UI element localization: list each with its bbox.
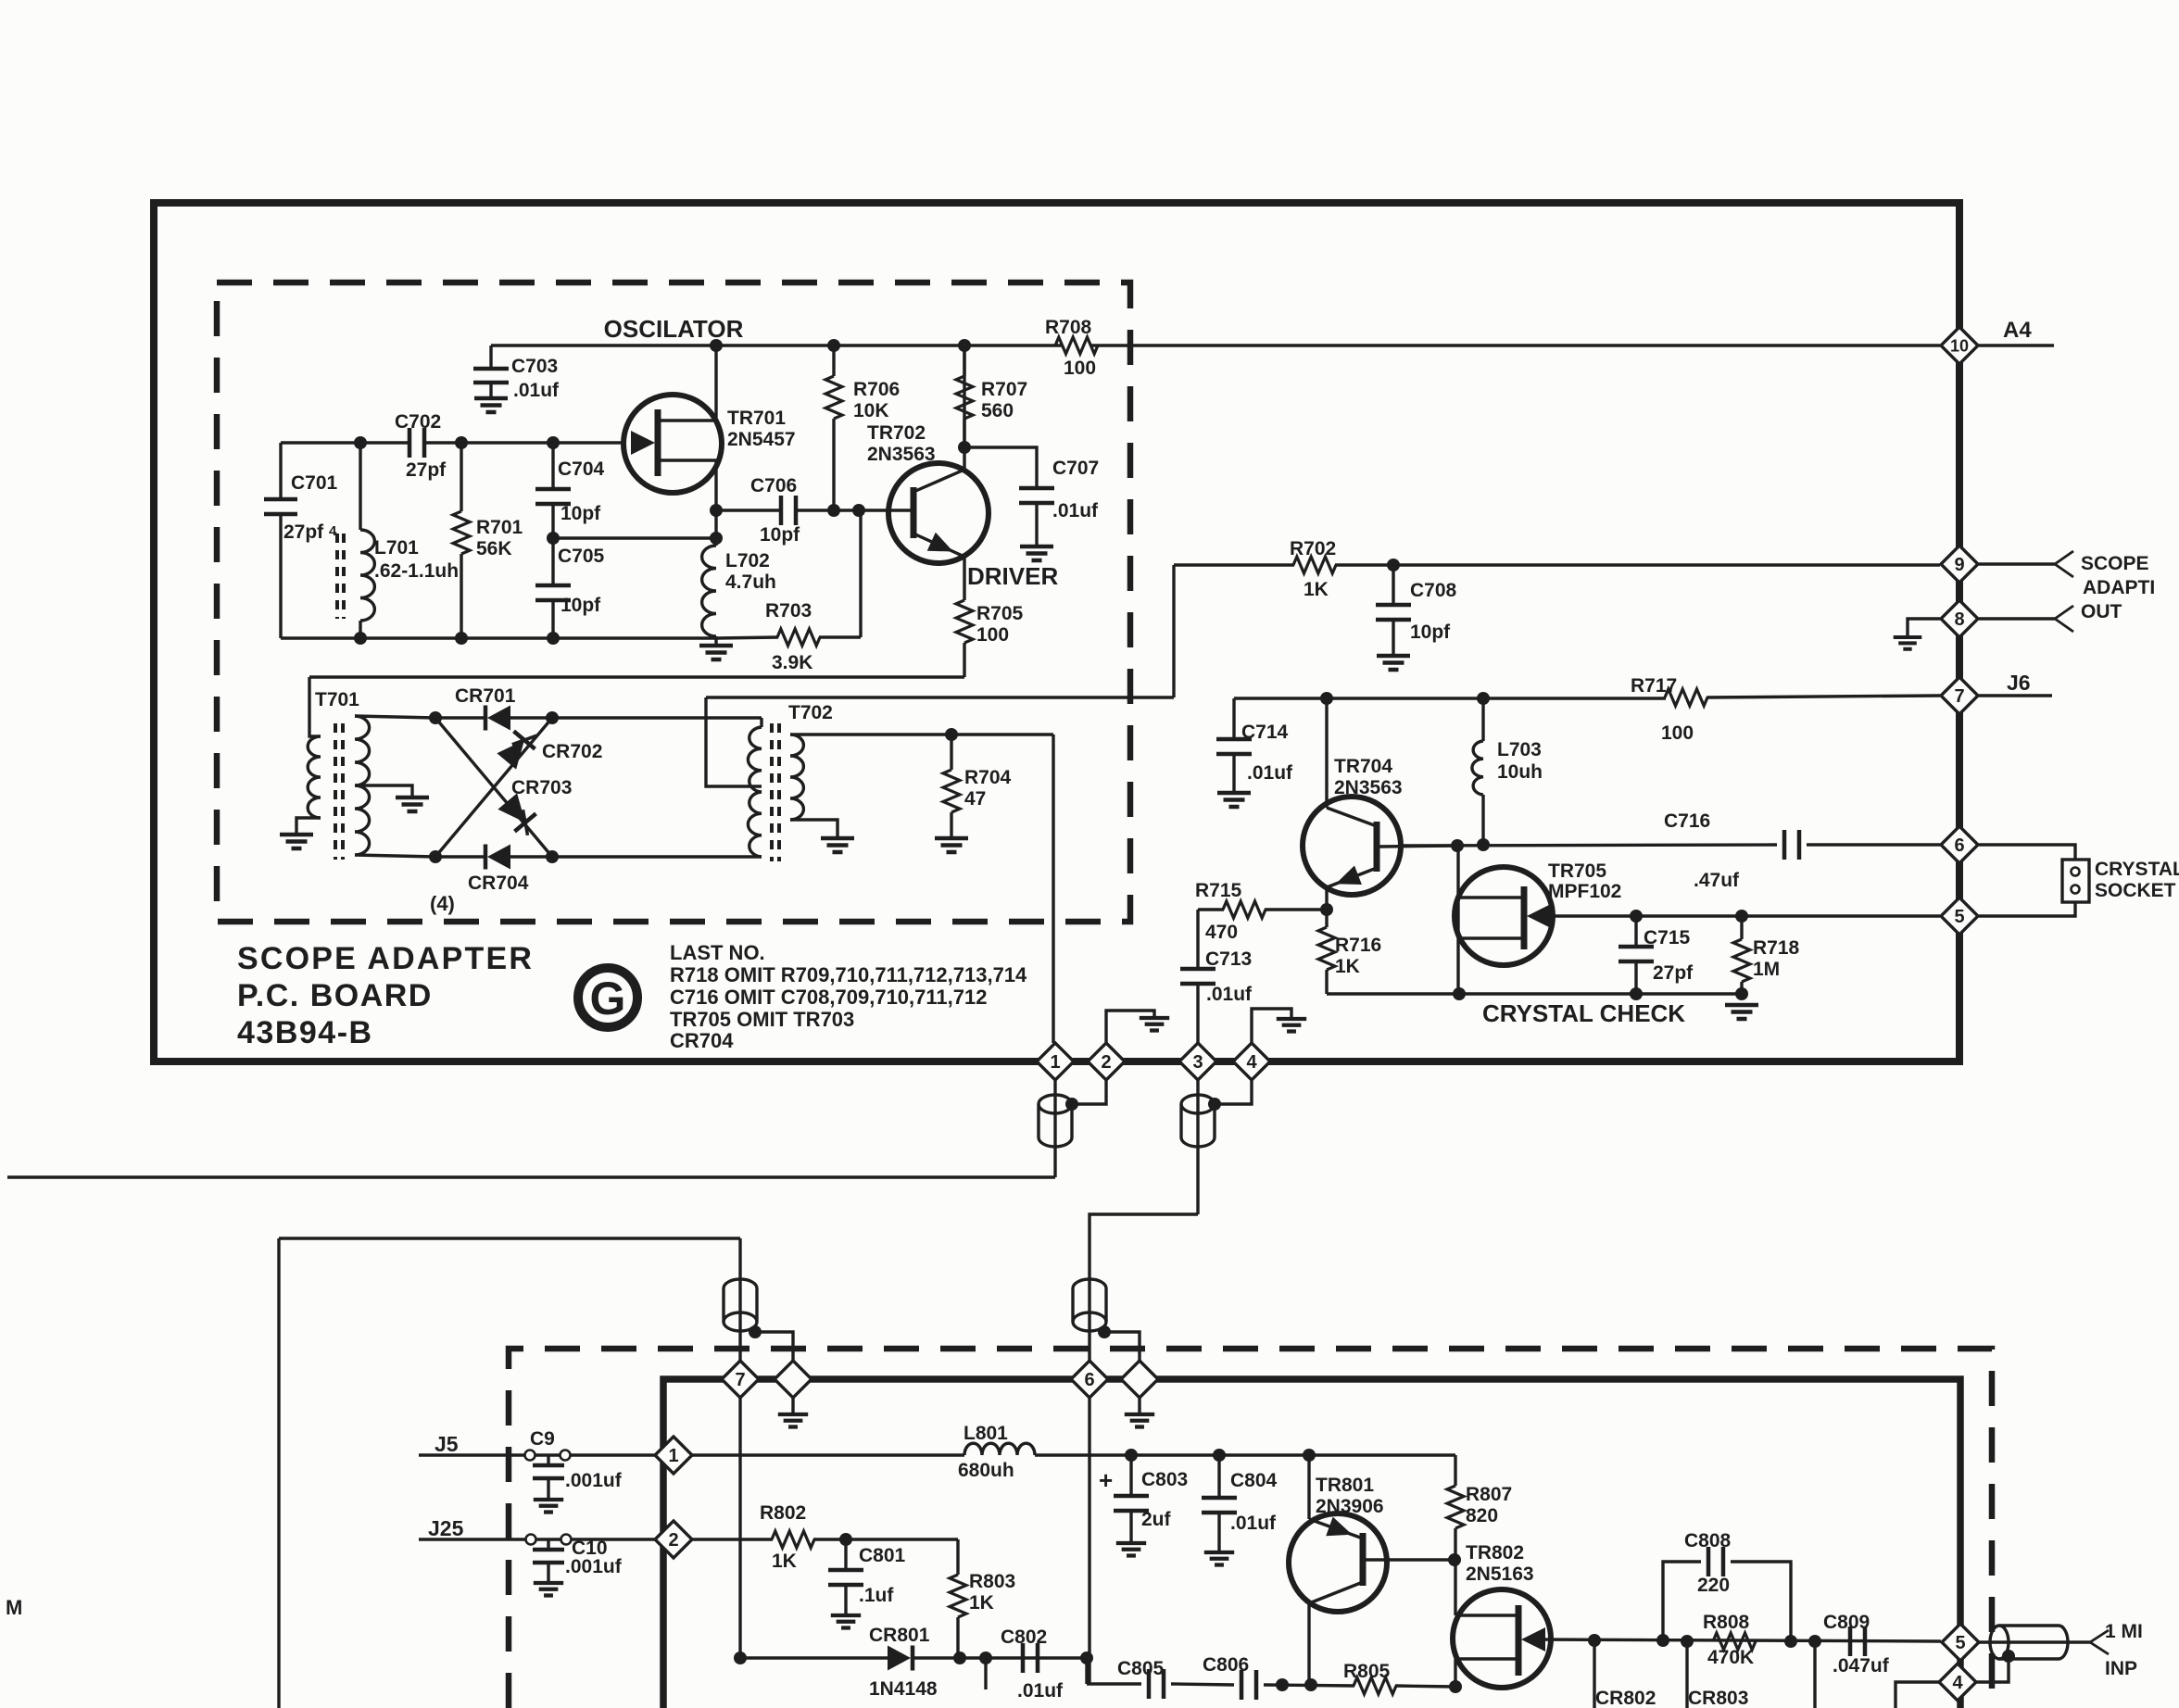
wire TR704 collector — [1325, 698, 1328, 808]
svg-text:C705: C705 — [558, 546, 605, 567]
wire feed to T702 primary center tap — [706, 697, 762, 786]
node stub — [979, 1651, 992, 1664]
wire rail A to rail B — [1085, 1658, 1088, 1684]
svg-text:R807: R807 — [1466, 1484, 1512, 1505]
svg-text:R716: R716 — [1335, 935, 1381, 956]
wire coax 7 feed from upper board — [738, 1238, 741, 1361]
diode CR702 — [497, 740, 524, 770]
svg-text:.001uf: .001uf — [565, 1556, 623, 1577]
ground T701 center tap — [396, 797, 429, 811]
svg-text:TR801: TR801 — [1316, 1475, 1374, 1496]
wire ring top to T702 primary — [552, 716, 762, 719]
wire emitter rail to T701 primary — [309, 675, 964, 678]
svg-text:C806: C806 — [1203, 1654, 1249, 1676]
PC board outline (solid border) SCOPE ADAPTER 43B94-B — [154, 203, 1959, 1061]
resistor R803 1K — [956, 1539, 959, 1575]
capacitor C713 .01uf — [1196, 910, 1199, 967]
wire TR701 source down — [714, 460, 717, 539]
wire J5 input line — [419, 1453, 655, 1456]
wire TR704 emitter down — [1325, 887, 1328, 910]
transformer T701 primary winding — [309, 677, 321, 736]
svg-text:C801: C801 — [859, 1545, 906, 1566]
svg-text:470K: 470K — [1707, 1647, 1754, 1668]
node between C704 and C705 — [547, 532, 560, 545]
transistor TR701 2N5457 FET (oscillator) — [623, 395, 722, 493]
wire R717 line (J6) — [1234, 697, 1666, 699]
wire J25 input line — [419, 1538, 655, 1540]
wire diamond 7 down to CR801 rail — [738, 1398, 741, 1658]
arrow out — [2055, 606, 2073, 632]
arrow scope adapter out — [2055, 551, 2073, 577]
connector diamond 5 — [1941, 898, 1978, 935]
wire diode ring top rail — [435, 716, 485, 719]
svg-text:1: 1 — [1050, 1052, 1060, 1073]
svg-text:SCOPE ADAPTER: SCOPE ADAPTER — [237, 941, 534, 976]
connector diamond 4 (lower board) — [1939, 1664, 1976, 1701]
capacitor C704 10pf — [551, 443, 554, 487]
svg-text:R701: R701 — [476, 517, 523, 538]
wire out stub (diamond 8) — [1979, 617, 2055, 620]
pin J5 b — [560, 1451, 571, 1461]
ground below shield diamond (6) — [1138, 1398, 1140, 1414]
capacitor C805 (series) — [1149, 1669, 1164, 1699]
svg-text:10uh: 10uh — [1497, 761, 1543, 783]
wire TR704 base to TR705 — [1379, 846, 1457, 847]
svg-text:DRIVER: DRIVER — [967, 562, 1058, 590]
svg-text:C809: C809 — [1823, 1612, 1870, 1633]
svg-text:L703: L703 — [1497, 739, 1542, 760]
coax shield at diamond 7 — [724, 1279, 757, 1322]
svg-text:100: 100 — [1661, 722, 1694, 744]
ground below shield diamond (7) — [791, 1398, 794, 1414]
svg-text:470: 470 — [1205, 922, 1238, 943]
svg-text:10pf: 10pf — [760, 524, 800, 546]
wire diamond 6 down to C805 rail — [1088, 1398, 1090, 1684]
node R707 top — [958, 339, 971, 352]
wire C805/C806 rail — [1087, 1682, 1141, 1685]
node L701 top — [354, 436, 367, 449]
wire C716 line — [1401, 845, 1777, 846]
pin J5 a — [525, 1451, 535, 1461]
svg-text:C713: C713 — [1205, 948, 1252, 970]
node C804 — [1213, 1449, 1226, 1462]
wire TR802 drain vertical — [1454, 1560, 1456, 1615]
svg-text:R707: R707 — [981, 379, 1027, 400]
svg-text:C716 OMIT C708,709,710,711,712: C716 OMIT C708,709,710,711,712 — [670, 986, 987, 1009]
wire tank bottom rail — [281, 636, 716, 639]
wire gate line / tank top left — [281, 441, 408, 444]
svg-text:27pf: 27pf — [406, 459, 447, 481]
wire A4 stub — [1979, 344, 2054, 346]
shield ground diamond at 7 — [775, 1361, 812, 1398]
wire C713 to diamond 3 — [1196, 984, 1199, 1043]
capacitor C808 220 (series) — [1708, 1547, 1723, 1576]
connector diamond 1 (upper board) — [1037, 1043, 1074, 1080]
diode CR703 — [498, 793, 525, 823]
svg-text:R717: R717 — [1631, 675, 1677, 697]
node output branch — [1808, 1635, 1821, 1648]
svg-text:3.9K: 3.9K — [772, 652, 812, 673]
wire supply rail to diamond 10 (A4) — [1091, 344, 1940, 346]
wire CR803 branch (cut off) — [1685, 1641, 1688, 1708]
wire R703 up to C706 node — [859, 510, 862, 637]
inductor L801 680uh — [964, 1443, 1035, 1455]
connector diamond 2 (lower board) — [655, 1521, 692, 1558]
svg-text:56K: 56K — [476, 538, 512, 559]
capacitor C804 .01uf with ground — [1217, 1455, 1220, 1496]
node source/C706 — [710, 504, 723, 517]
node drain TR701 / rail — [710, 339, 723, 352]
svg-text:MPF102: MPF102 — [1548, 881, 1621, 902]
svg-text:CR702: CR702 — [542, 741, 602, 762]
capacitor C703 .01uf with ground — [489, 345, 492, 367]
svg-text:R805: R805 — [1343, 1661, 1391, 1682]
inductor L701 .62-1.1uh (4 turns) — [359, 443, 361, 530]
wire C808 bypass left — [1663, 1562, 1701, 1640]
inductor L703 10uh — [1481, 698, 1484, 741]
svg-text:4: 4 — [1952, 1673, 1963, 1693]
wire TR802 source to rail — [1454, 1659, 1456, 1686]
svg-text:5: 5 — [1954, 907, 1964, 927]
wire coax 3 shield to diamond 4 — [1215, 1080, 1252, 1104]
coax to 1 MHZ input — [1979, 1640, 2090, 1643]
transistor TR801 2N3906 (PNP) — [1289, 1513, 1387, 1612]
svg-text:1M: 1M — [1753, 959, 1780, 980]
svg-text:10pf: 10pf — [560, 503, 601, 524]
svg-text:G: G — [590, 973, 626, 1024]
capacitor C708 10pf with ground — [1387, 559, 1400, 571]
svg-text:1N4148: 1N4148 — [869, 1678, 938, 1700]
diode CR704 — [484, 845, 488, 870]
resistor R808 470K — [1713, 1633, 1756, 1650]
svg-text:.01uf: .01uf — [1247, 762, 1293, 784]
node TR802 source / rail — [1449, 1680, 1462, 1693]
pin J25 a — [526, 1535, 536, 1545]
svg-text:1K: 1K — [1304, 579, 1329, 600]
node CR803 — [1681, 1635, 1694, 1648]
svg-text:TR704: TR704 — [1334, 756, 1392, 777]
wire ring diagonal (down-right) — [435, 718, 552, 857]
wire diamond 3 to coax feedthrough — [1196, 1080, 1199, 1214]
svg-text:2: 2 — [1101, 1052, 1111, 1073]
svg-text:CRYSTAL: CRYSTAL — [2095, 859, 2179, 880]
svg-text:C805: C805 — [1117, 1658, 1165, 1679]
capacitor C10 .001uf with ground — [547, 1539, 549, 1548]
capacitor C9 .001uf with ground — [547, 1455, 549, 1463]
svg-text:2N3563: 2N3563 — [1334, 777, 1403, 798]
svg-text:C808: C808 — [1684, 1530, 1732, 1551]
svg-text:J6: J6 — [2007, 671, 2031, 695]
node coax 1 shield — [1065, 1098, 1078, 1111]
wire diode ring bottom rail — [435, 855, 485, 858]
svg-text:T702: T702 — [788, 702, 833, 723]
svg-text:C706: C706 — [750, 475, 797, 496]
svg-text:8: 8 — [1954, 609, 1964, 630]
node TR801 collector — [1304, 1678, 1317, 1691]
svg-text:C714: C714 — [1241, 722, 1289, 743]
svg-text:M: M — [6, 1596, 22, 1619]
node C714/TR704 — [1320, 692, 1333, 705]
wire crystal-check ground rail — [1327, 992, 1742, 995]
core of T701 — [334, 723, 337, 860]
wire TR705 gate line to diamond 5 — [1542, 914, 1940, 917]
core of T702 — [770, 723, 774, 861]
svg-text:.1uf: .1uf — [859, 1585, 894, 1606]
node TR705 drain line — [1451, 839, 1464, 852]
dashed shield box around oscillator/driver section — [217, 283, 1130, 922]
node rail A / diamond-6 line — [1080, 1651, 1093, 1664]
svg-text:J25: J25 — [428, 1516, 464, 1540]
svg-text:CR801: CR801 — [869, 1625, 930, 1646]
wire center-tap feed rail — [706, 696, 1174, 698]
wire ring diagonal (up-right) — [435, 718, 552, 857]
svg-text:R808: R808 — [1703, 1612, 1750, 1633]
svg-text:820: 820 — [1466, 1505, 1498, 1526]
svg-text:OUT: OUT — [2081, 601, 2122, 622]
node coax 7 shield — [749, 1325, 762, 1338]
node L703 top — [1477, 692, 1490, 705]
svg-text:R708: R708 — [1045, 317, 1092, 338]
svg-text:CR802: CR802 — [1595, 1688, 1656, 1708]
svg-text:CRYSTAL CHECK: CRYSTAL CHECK — [1482, 999, 1685, 1027]
node CR802 — [1588, 1634, 1601, 1647]
node C704 top — [547, 436, 560, 449]
svg-text:C9: C9 — [530, 1428, 555, 1450]
svg-text:4: 4 — [1246, 1052, 1257, 1073]
svg-text:R704: R704 — [964, 767, 1012, 788]
svg-text:T701: T701 — [315, 689, 359, 710]
node R706 top — [827, 339, 840, 352]
wire TR801 base — [1366, 1558, 1455, 1561]
node collector / C707 — [958, 441, 971, 454]
svg-text:C708: C708 — [1410, 580, 1457, 601]
svg-text:C703: C703 — [511, 356, 558, 377]
connector diamond 6 — [1941, 826, 1978, 863]
svg-text:.01uf: .01uf — [1017, 1680, 1064, 1702]
node coax 3 shield — [1208, 1098, 1221, 1111]
resistor R705 100 — [963, 557, 965, 600]
wire T702 secondary to connector diamond 1 — [1052, 735, 1054, 1043]
svg-text:R802: R802 — [760, 1502, 806, 1524]
wire TR705 drain/source vertical — [1456, 846, 1459, 994]
resistor R704 47 with ground — [950, 735, 952, 770]
svg-text:TR705 OMIT TR703: TR705 OMIT TR703 — [670, 1008, 854, 1031]
svg-text:C715: C715 — [1644, 927, 1691, 948]
svg-text:R706: R706 — [853, 379, 900, 400]
svg-text:R803: R803 — [969, 1571, 1015, 1592]
svg-text:C803: C803 — [1141, 1469, 1188, 1490]
node C803 — [1125, 1449, 1138, 1462]
svg-text:L701: L701 — [374, 537, 419, 559]
svg-text:C707: C707 — [1052, 458, 1099, 479]
svg-text:SOCKET: SOCKET — [2095, 880, 2176, 901]
transistor TR704 2N3563 (crystal check) — [1303, 797, 1401, 895]
resistor R707 560 — [963, 345, 965, 376]
svg-text:TR802: TR802 — [1466, 1542, 1524, 1564]
connector diamond 10 — [1941, 327, 1978, 364]
svg-text:2: 2 — [668, 1530, 678, 1551]
svg-text:P.C. BOARD: P.C. BOARD — [237, 978, 433, 1013]
connector diamond 6 (lower board) — [1071, 1361, 1108, 1398]
resistor R807 820 — [1454, 1455, 1456, 1486]
wire T702 secondary top — [790, 733, 1053, 735]
capacitor C701 27pf in left branch — [279, 443, 282, 497]
svg-text:9: 9 — [1954, 555, 1964, 575]
svg-text:1K: 1K — [1335, 956, 1360, 977]
wire diamond 1 to coax feedthrough — [1053, 1080, 1056, 1177]
capacitor C806 (series) — [1241, 1670, 1256, 1700]
svg-text:R703: R703 — [765, 600, 812, 622]
svg-text:R718: R718 — [1753, 937, 1800, 959]
node coax 6 shield — [1098, 1325, 1111, 1338]
wire diamond 3 line down to lower board coax — [1089, 1214, 1198, 1361]
svg-text:.62-1.1uh: .62-1.1uh — [374, 560, 459, 582]
wire ring bottom to T702 primary — [552, 855, 762, 858]
transistor TR705 MPF102 FET — [1455, 867, 1553, 965]
connector diamond 7 (lower board) — [722, 1361, 759, 1398]
svg-text:TR705: TR705 — [1548, 860, 1606, 882]
svg-text:C702: C702 — [395, 411, 441, 433]
coax shield at diamond 3 — [1181, 1095, 1215, 1113]
svg-text:.01uf: .01uf — [1206, 984, 1253, 1005]
capacitor C802 .01uf (series) — [1023, 1643, 1038, 1673]
svg-text:10pf: 10pf — [560, 595, 601, 616]
transformer T702 secondary winding — [790, 735, 803, 820]
svg-text:.047uf: .047uf — [1833, 1655, 1890, 1677]
svg-text:L801: L801 — [964, 1423, 1008, 1444]
wire C808 bypass right — [1731, 1562, 1791, 1641]
capacitor C716 .47uf (series) — [1784, 830, 1799, 860]
svg-text:CR803: CR803 — [1688, 1688, 1748, 1708]
wire T701 secondary bottom to diode ring — [355, 855, 435, 857]
resistor R802 1K — [692, 1538, 773, 1540]
coax shield at diamond 6 — [1073, 1279, 1106, 1322]
resistor R701 56K — [460, 443, 462, 511]
svg-text:27pf: 27pf — [1653, 962, 1694, 984]
svg-text:43B94-B: 43B94-B — [237, 1015, 373, 1050]
capacitor C707 .01uf with ground — [964, 447, 1037, 486]
svg-text:2N3563: 2N3563 — [867, 444, 936, 465]
connector diamond 2 (upper board) — [1088, 1043, 1125, 1080]
svg-text:5: 5 — [1955, 1633, 1965, 1653]
svg-text:R715: R715 — [1195, 880, 1242, 901]
svg-text:SCOPE: SCOPE — [2081, 553, 2149, 574]
svg-text:C704: C704 — [558, 458, 605, 480]
node R703 branch — [852, 504, 865, 517]
node coax 5 shield — [2002, 1650, 2015, 1663]
connector diamond 5 (lower board) — [1942, 1624, 1979, 1661]
svg-text:4.7uh: 4.7uh — [725, 571, 776, 593]
svg-text:R702: R702 — [1290, 538, 1336, 559]
svg-text:.001uf: .001uf — [565, 1470, 623, 1491]
node C801 — [839, 1533, 852, 1546]
dashed shield box of lower board — [509, 1349, 1992, 1708]
svg-text:1 MI: 1 MI — [2105, 1621, 2143, 1642]
transistor TR702 2N3563 (driver) — [888, 463, 989, 563]
connector diamond 1 (lower board) — [655, 1437, 692, 1474]
shield ground diamond at 6 — [1121, 1361, 1158, 1398]
svg-text:+: + — [1099, 1466, 1113, 1494]
svg-text:7: 7 — [1954, 686, 1964, 707]
wire long run to left edge (from diamond 1) — [7, 1175, 1055, 1178]
svg-text:10K: 10K — [853, 400, 889, 421]
wire coax 6 shield to ground diamond — [1104, 1332, 1140, 1361]
wire diamond 4 left stub — [1896, 1682, 1939, 1708]
svg-text:ADAPTI: ADAPTI — [2083, 577, 2155, 598]
capacitor C801 .1uf with ground — [844, 1539, 847, 1568]
thin outline of lower board region — [279, 1237, 740, 1239]
svg-text:6: 6 — [1954, 835, 1964, 856]
svg-text:2N5457: 2N5457 — [727, 429, 796, 450]
svg-text:100: 100 — [1064, 358, 1096, 379]
ground T701 primary — [280, 835, 313, 848]
connector diamond 8 — [1941, 600, 1978, 637]
svg-text:A4: A4 — [2003, 318, 2032, 343]
svg-text:6: 6 — [1084, 1370, 1094, 1390]
wire scope adapter out stub (diamond 9) — [1979, 562, 2055, 565]
wire stub below rail — [984, 1658, 987, 1689]
wire feed rail up to R702 — [1172, 565, 1175, 697]
wire CR802 branch (cut off) — [1593, 1640, 1595, 1708]
svg-text:C701: C701 — [291, 472, 338, 494]
resistor R702 1K — [1174, 563, 1294, 566]
wire coax 7 shield to ground diamond — [755, 1332, 793, 1361]
solid border of lower board — [663, 1379, 1960, 1708]
transformer T701 secondary winding — [355, 716, 370, 855]
svg-text:220: 220 — [1697, 1575, 1730, 1596]
wire TR801 collector down to rail — [1307, 1603, 1310, 1685]
svg-text:.01uf: .01uf — [1052, 500, 1099, 521]
svg-text:.01uf: .01uf — [1230, 1513, 1277, 1534]
capacitor C809 .047uf (series) — [1850, 1626, 1865, 1656]
node L703 bottom — [1477, 838, 1490, 851]
svg-text:100: 100 — [976, 624, 1009, 646]
capacitor C715 27pf — [1630, 910, 1643, 923]
wire J6 stub — [1979, 694, 2052, 697]
node TR704 emitter/R716 — [1320, 903, 1333, 916]
node TR801 base / TR802 — [1448, 1553, 1461, 1566]
resistor R805 — [1354, 1677, 1396, 1694]
wire T702 secondary bottom — [790, 820, 838, 838]
svg-text:(4): (4) — [430, 892, 455, 915]
wire TR802 gate output line — [1536, 1639, 1941, 1641]
svg-text:1K: 1K — [969, 1592, 994, 1614]
node R706 bottom — [827, 504, 840, 517]
svg-text:3: 3 — [1192, 1052, 1203, 1073]
logo G in circle — [578, 968, 637, 1027]
crystal socket with two pins — [1979, 845, 2075, 860]
svg-text:C802: C802 — [1001, 1626, 1047, 1648]
svg-text:INP: INP — [2105, 1658, 2137, 1679]
svg-text:1K: 1K — [772, 1551, 797, 1572]
node rail B — [1276, 1678, 1289, 1691]
node R704 top — [945, 728, 958, 741]
pin J25 b — [561, 1535, 572, 1545]
resistor R715 470 — [1198, 908, 1224, 911]
capacitor C803 2uf electrolytic with ground — [1129, 1455, 1132, 1494]
connector diamond 3 (upper board) — [1179, 1043, 1216, 1080]
svg-text:.47uf: .47uf — [1694, 870, 1740, 891]
svg-text:OSCILATOR: OSCILATOR — [604, 315, 744, 343]
ground crystal check rail — [1725, 1005, 1758, 1019]
transistor TR802 2N5163 FET — [1453, 1589, 1551, 1688]
svg-text:TR701: TR701 — [727, 408, 786, 429]
ground at diamond 8 — [1908, 619, 1940, 637]
svg-text:1: 1 — [668, 1446, 678, 1466]
wire TR801 emitter from rail — [1307, 1455, 1310, 1519]
svg-text:L702: L702 — [725, 550, 770, 571]
svg-text:4: 4 — [329, 523, 337, 539]
